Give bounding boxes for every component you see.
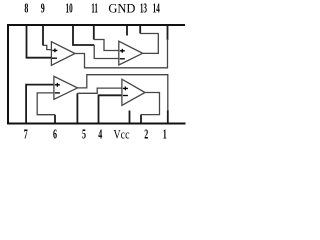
svg-text:14: 14: [153, 1, 160, 16]
svg-text:10: 10: [66, 1, 73, 16]
svg-text:4: 4: [98, 128, 102, 143]
svg-text:11: 11: [91, 1, 98, 16]
svg-text:2: 2: [144, 128, 148, 143]
svg-text:7: 7: [24, 128, 28, 143]
svg-text:13: 13: [140, 1, 147, 16]
svg-text:Vcc: Vcc: [114, 128, 130, 142]
svg-text:1: 1: [163, 128, 167, 143]
svg-text:9: 9: [41, 2, 45, 17]
svg-text:8: 8: [24, 2, 28, 17]
svg-text:5: 5: [82, 128, 86, 143]
svg-text:6: 6: [53, 128, 57, 143]
svg-text:GND: GND: [108, 1, 135, 15]
